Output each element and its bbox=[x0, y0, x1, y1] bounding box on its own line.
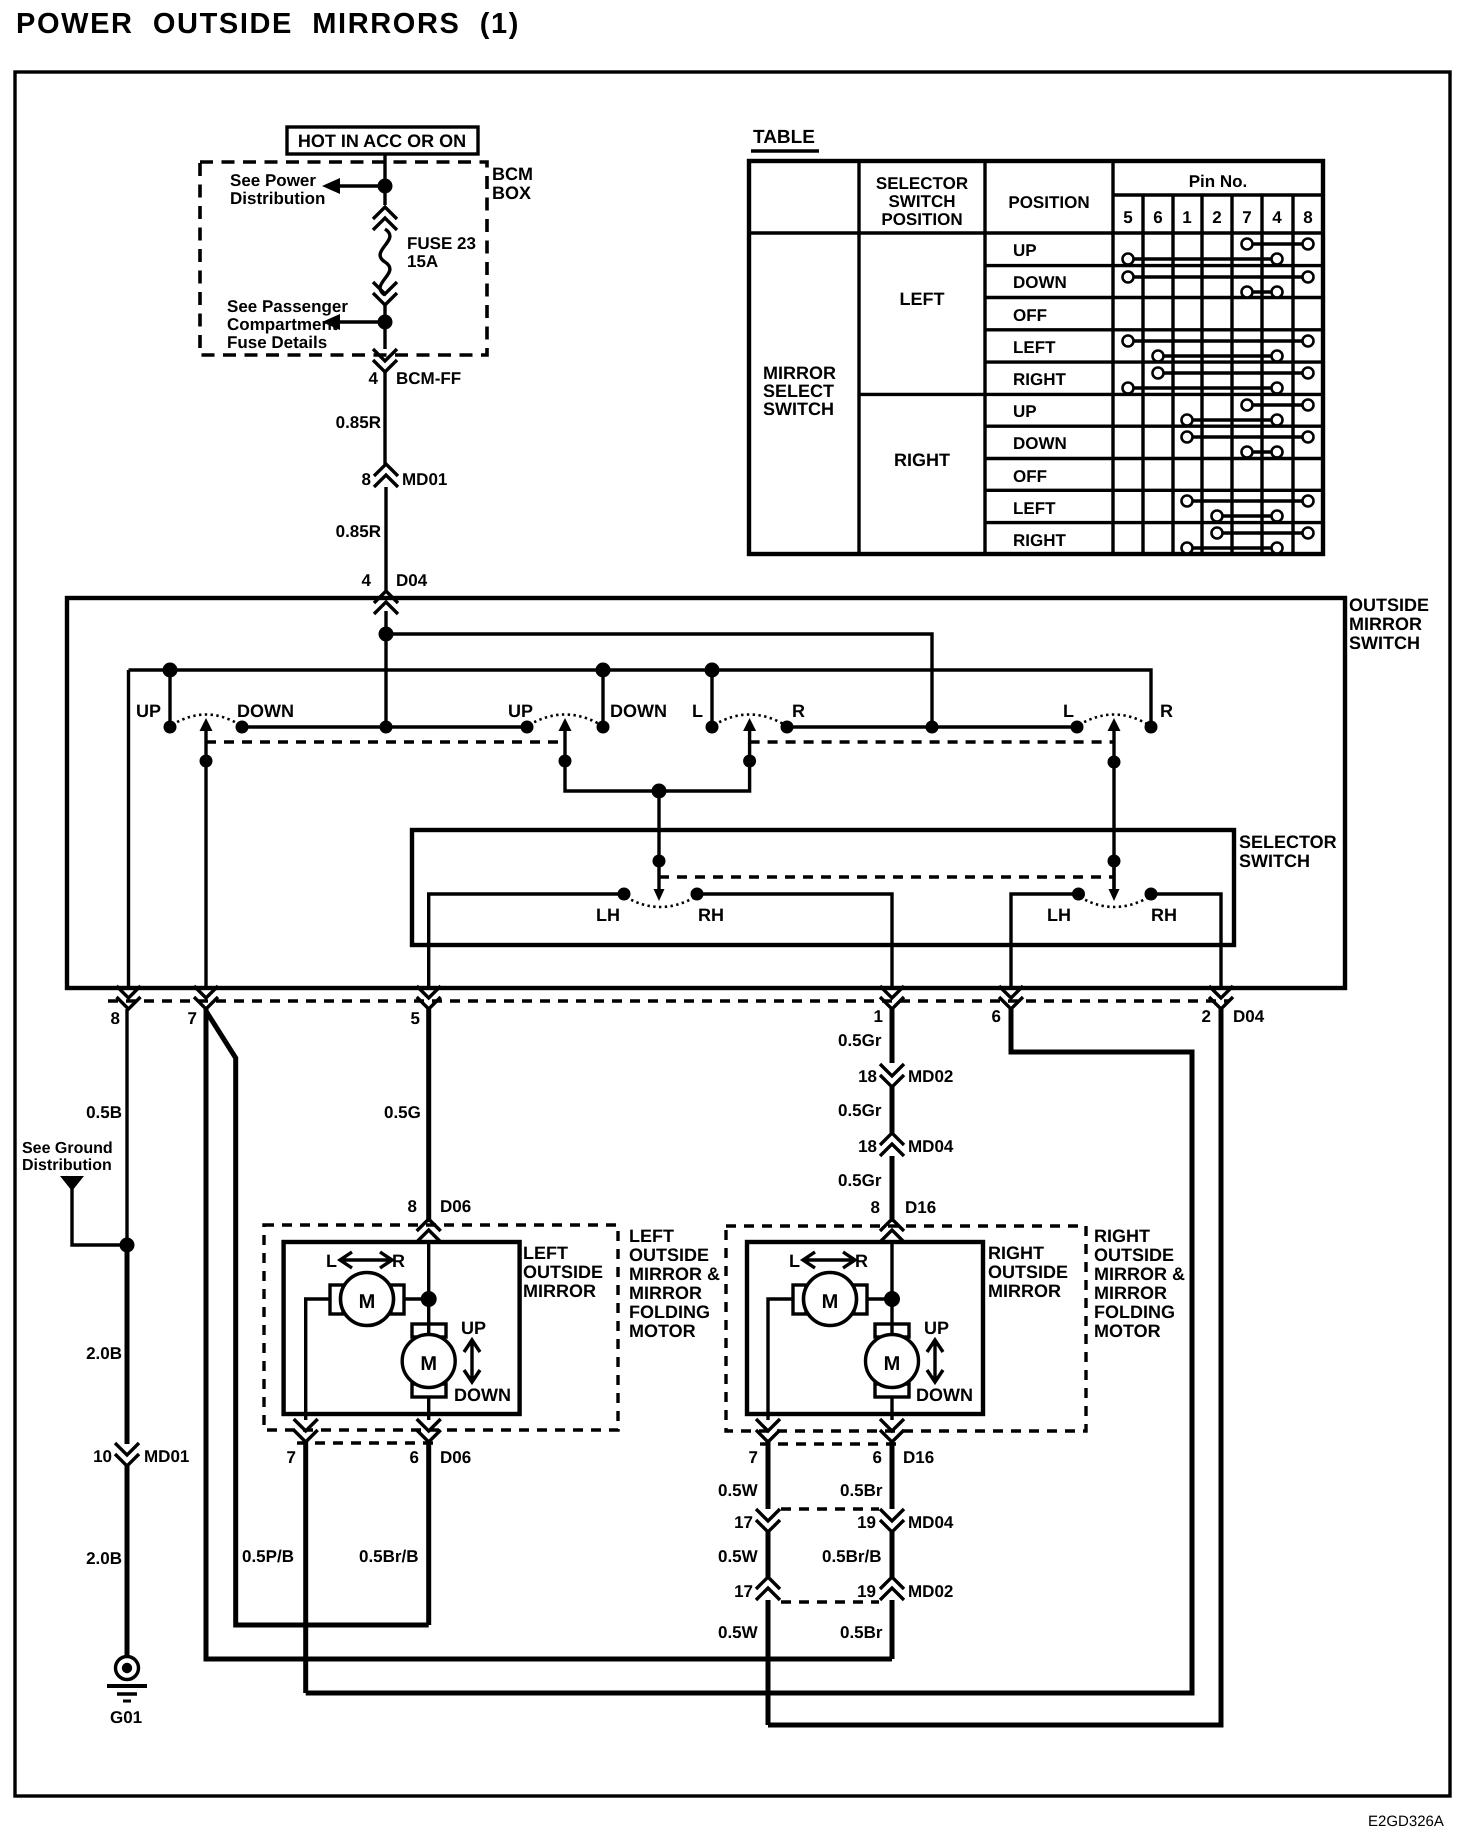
svg-text:0.5Br: 0.5Br bbox=[840, 1481, 883, 1500]
svg-text:MOTOR: MOTOR bbox=[1094, 1321, 1161, 1341]
wiper arc L2-R2 bbox=[1079, 715, 1149, 726]
node: power distribution junction bbox=[378, 179, 393, 194]
left mirror assembly bbox=[242, 1009, 720, 1693]
selector mechanical link dashed bbox=[659, 875, 1114, 878]
svg-text:8: 8 bbox=[362, 470, 371, 489]
node: ground branch junction bbox=[120, 1238, 135, 1253]
wire: LH1 to pin5 bbox=[429, 894, 624, 988]
svg-text:8: 8 bbox=[111, 1009, 120, 1028]
svg-text:SWITCH: SWITCH bbox=[1239, 851, 1310, 871]
node: passenger fuse junction bbox=[378, 315, 393, 330]
row4 LEFT contacts 6-4 bbox=[1153, 351, 1283, 362]
svg-text:MD04: MD04 bbox=[908, 1137, 954, 1156]
node on wiper2 stem bbox=[559, 755, 572, 768]
svg-text:6: 6 bbox=[410, 1448, 419, 1467]
arrow: see passenger compartment fuse details bbox=[338, 320, 385, 323]
svg-text:7: 7 bbox=[749, 1448, 758, 1467]
svg-text:L: L bbox=[1063, 701, 1074, 721]
svg-text:7: 7 bbox=[188, 1009, 197, 1028]
wiper arc L1-R1 bbox=[714, 715, 785, 726]
svg-text:19: 19 bbox=[857, 1582, 876, 1601]
wire 0.5Gr bbox=[890, 1156, 895, 1222]
wire: fuse to lower junction bbox=[383, 305, 386, 349]
svg-text:0.5P/B: 0.5P/B bbox=[242, 1547, 294, 1566]
svg-text:MIRROR: MIRROR bbox=[763, 363, 836, 383]
node: selector feed junction 1 bbox=[653, 855, 666, 868]
svg-text:6: 6 bbox=[873, 1448, 882, 1467]
svg-text:0.5Br/B: 0.5Br/B bbox=[359, 1547, 419, 1566]
svg-text:17: 17 bbox=[734, 1582, 753, 1601]
connector D04 dashed line bbox=[108, 999, 1229, 1002]
row6 UP contacts 7-8 bbox=[1242, 400, 1314, 411]
svg-text:RIGHT: RIGHT bbox=[1094, 1226, 1150, 1246]
svg-text:OFF: OFF bbox=[1013, 306, 1047, 325]
table column line col3 bbox=[1111, 161, 1114, 554]
connector pin 6 D16 bbox=[880, 1419, 904, 1442]
label HOT IN ACC OR ON bbox=[287, 127, 478, 154]
connector MD02 dashed link bbox=[781, 1600, 879, 1603]
wire: wiper4 stem down into selector bbox=[1112, 730, 1115, 889]
svg-text:0.5W: 0.5W bbox=[718, 1547, 759, 1566]
D04 connector row bbox=[108, 986, 1265, 1028]
svg-text:R: R bbox=[1160, 701, 1173, 721]
connector pin 2 D04 bbox=[1209, 986, 1233, 1009]
svg-text:HOT IN ACC OR ON: HOT IN ACC OR ON bbox=[298, 131, 466, 151]
connector 17 MD04 bbox=[756, 1509, 780, 1532]
contact nodes row bbox=[164, 721, 177, 734]
wire 0.85R bbox=[384, 487, 387, 591]
connector 18 MD02 bbox=[880, 1064, 904, 1087]
svg-text:LEFT: LEFT bbox=[629, 1226, 674, 1246]
connector 8 MD01 bbox=[374, 464, 398, 487]
svg-text:OFF: OFF bbox=[1013, 467, 1047, 486]
motor M folding (right) bbox=[793, 1285, 806, 1314]
svg-text:0.5B: 0.5B bbox=[86, 1103, 122, 1122]
node: bus tap L1 bbox=[705, 663, 720, 678]
right mirror assembly bbox=[718, 1009, 1185, 1725]
svg-text:MD04: MD04 bbox=[908, 1513, 954, 1532]
svg-text:RH: RH bbox=[1151, 905, 1177, 925]
svg-text:LEFT: LEFT bbox=[900, 289, 945, 309]
connector pin 7 D04 bbox=[194, 986, 218, 1009]
LEFT OUTSIDE MIRROR and FOLDING MOTOR dashed box bbox=[264, 1225, 618, 1430]
svg-text:0.85R: 0.85R bbox=[336, 413, 381, 432]
svg-text:D04: D04 bbox=[396, 571, 428, 590]
svg-text:UP: UP bbox=[924, 1318, 949, 1338]
motor M up-down (left) bbox=[412, 1324, 446, 1337]
pin column dividers bbox=[1141, 195, 1144, 554]
selector contacts LH2 RH2 bbox=[1072, 888, 1085, 901]
svg-text:DOWN: DOWN bbox=[916, 1385, 973, 1405]
wire: up-down motor to pin6 bbox=[427, 1397, 430, 1420]
svg-text:2: 2 bbox=[1212, 208, 1221, 227]
RIGHT OUTSIDE MIRROR inner box bbox=[747, 1242, 983, 1414]
svg-text:7: 7 bbox=[287, 1448, 296, 1467]
svg-text:1: 1 bbox=[874, 1007, 883, 1026]
wire: wiper2 stem bbox=[565, 730, 659, 791]
svg-text:UP: UP bbox=[461, 1318, 486, 1338]
svg-text:4: 4 bbox=[369, 369, 379, 388]
svg-text:2.0B: 2.0B bbox=[86, 1549, 122, 1568]
svg-text:FOLDING: FOLDING bbox=[629, 1302, 710, 1322]
row1 UP contacts 5-4 bbox=[1123, 254, 1283, 265]
svg-text:18: 18 bbox=[858, 1067, 877, 1086]
svg-text:6: 6 bbox=[1153, 208, 1162, 227]
svg-text:0.5Gr: 0.5Gr bbox=[838, 1171, 882, 1190]
svg-text:D06: D06 bbox=[440, 1197, 471, 1216]
arrow: ground distribution triangle bbox=[60, 1176, 84, 1191]
svg-text:POWER OUTSIDE MIRRORS (1): POWER OUTSIDE MIRRORS (1) bbox=[16, 8, 520, 40]
svg-text:6: 6 bbox=[992, 1007, 1001, 1026]
SELECTOR SWITCH box bbox=[412, 830, 1234, 945]
svg-text:BOX: BOX bbox=[492, 183, 531, 203]
wire 0.5Br/B right bbox=[890, 1532, 895, 1577]
svg-text:2: 2 bbox=[1202, 1007, 1211, 1026]
svg-text:Fuse Details: Fuse Details bbox=[227, 333, 327, 352]
row7 DOWN contacts 1-8 bbox=[1182, 432, 1314, 443]
wire 0.85R bbox=[383, 372, 386, 464]
svg-text:RIGHT: RIGHT bbox=[988, 1243, 1044, 1263]
svg-text:SWITCH: SWITCH bbox=[888, 192, 955, 211]
wire 0.5B pin8 down bbox=[125, 1009, 128, 1245]
svg-text:D16: D16 bbox=[903, 1448, 934, 1467]
connector pin 6 D04 bbox=[999, 986, 1023, 1009]
svg-text:0.5Gr: 0.5Gr bbox=[838, 1101, 882, 1120]
wire: lower bus across switch bbox=[129, 670, 1152, 727]
svg-text:4: 4 bbox=[1272, 208, 1282, 227]
svg-text:D04: D04 bbox=[1233, 1007, 1265, 1026]
mechanical link dashed left pair bbox=[206, 740, 565, 743]
svg-text:MIRROR: MIRROR bbox=[629, 1283, 702, 1303]
node on wiper1 stem bbox=[200, 755, 213, 768]
svg-text:See Passenger: See Passenger bbox=[227, 297, 348, 316]
selector arrow 2 head bbox=[1109, 889, 1120, 901]
svg-text:Pin No.: Pin No. bbox=[1189, 172, 1248, 191]
svg-text:10: 10 bbox=[93, 1447, 112, 1466]
svg-text:0.5W: 0.5W bbox=[718, 1623, 759, 1642]
row10 RIGHT contacts 2-8 bbox=[1212, 528, 1314, 539]
svg-text:L: L bbox=[692, 701, 703, 721]
svg-text:SWITCH: SWITCH bbox=[763, 399, 834, 419]
svg-text:DOWN: DOWN bbox=[1013, 434, 1067, 453]
arrow: see power distribution bbox=[338, 184, 385, 187]
svg-text:5: 5 bbox=[1123, 208, 1132, 227]
switch internals bbox=[129, 611, 1337, 988]
table column line col2 bbox=[983, 161, 986, 554]
svg-text:FOLDING: FOLDING bbox=[1094, 1302, 1175, 1322]
wire: LH2 to pin6 bbox=[1011, 894, 1079, 988]
svg-text:OUTSIDE: OUTSIDE bbox=[523, 1262, 603, 1282]
svg-text:Distribution: Distribution bbox=[22, 1157, 112, 1174]
wire: pin8 into box to junction bbox=[890, 1240, 893, 1336]
row4 LEFT contacts 5-8 bbox=[1123, 336, 1314, 347]
LEFT OUTSIDE MIRROR inner box bbox=[284, 1242, 520, 1414]
fuse FUSE 23 15A bbox=[380, 229, 390, 295]
wire: up-down motor to pin6 bbox=[890, 1397, 893, 1420]
motor M up-down (right) bbox=[875, 1324, 909, 1337]
svg-text:RIGHT: RIGHT bbox=[1013, 531, 1067, 550]
header row bottom line bbox=[749, 231, 1323, 234]
wire: pin8 leg bbox=[127, 670, 130, 988]
svg-text:SWITCH: SWITCH bbox=[1349, 633, 1420, 653]
node: motor junction left bbox=[421, 1291, 437, 1307]
row1 UP contacts 7-8 bbox=[1242, 239, 1314, 250]
svg-text:MD02: MD02 bbox=[908, 1067, 953, 1086]
svg-text:0.5Gr: 0.5Gr bbox=[838, 1031, 882, 1050]
wire 0.5Br/B left bbox=[426, 1442, 431, 1625]
svg-text:M: M bbox=[884, 1353, 901, 1375]
svg-text:Compartment: Compartment bbox=[227, 315, 338, 334]
selector arc LH1-RH1 bbox=[626, 897, 695, 907]
svg-text:MIRROR: MIRROR bbox=[988, 1281, 1061, 1301]
svg-text:D06: D06 bbox=[440, 1448, 471, 1467]
wiper arrow 4 bbox=[1108, 718, 1121, 731]
connector 19 MD02 bbox=[880, 1577, 904, 1600]
wire: folding motor to junction bbox=[867, 1297, 892, 1300]
svg-text:DOWN: DOWN bbox=[237, 701, 294, 721]
svg-text:MIRROR: MIRROR bbox=[1094, 1283, 1167, 1303]
row6 UP contacts 1-4 bbox=[1182, 415, 1283, 426]
wire: folding motor left tab to pin7 bbox=[768, 1299, 793, 1420]
svg-text:See Ground: See Ground bbox=[22, 1140, 113, 1157]
svg-text:BCM-FF: BCM-FF bbox=[396, 369, 461, 388]
wire: D04 pin2 riser to D16 pin7 route bbox=[768, 1009, 1221, 1725]
svg-text:OUTSIDE: OUTSIDE bbox=[1094, 1245, 1174, 1265]
svg-text:1: 1 bbox=[1182, 208, 1191, 227]
svg-text:DOWN: DOWN bbox=[610, 701, 667, 721]
wire 0.5W mid bbox=[766, 1532, 771, 1577]
connector chevron below fuse bbox=[373, 282, 397, 305]
svg-text:Distribution: Distribution bbox=[230, 189, 325, 208]
node on wiper3 stem bbox=[743, 755, 756, 768]
svg-text:FUSE 23: FUSE 23 bbox=[407, 234, 476, 253]
row10 RIGHT contacts 1-4 bbox=[1182, 543, 1283, 554]
connector pin 1 D04 bbox=[880, 986, 904, 1009]
svg-text:G01: G01 bbox=[110, 1708, 142, 1727]
connector chevron above fuse bbox=[373, 207, 397, 230]
wire: DOWN1 to UP2 contact strap bbox=[242, 725, 527, 728]
row9 LEFT contacts 1-8 bbox=[1182, 496, 1314, 507]
row2 DOWN contacts 7-4 bbox=[1242, 287, 1283, 298]
wire 2.0B lower bbox=[125, 1466, 130, 1656]
svg-text:LH: LH bbox=[596, 905, 620, 925]
wire 0.5Gr pin1 chain bbox=[890, 1009, 895, 1063]
node on wiper4 stem bbox=[1108, 756, 1121, 769]
svg-text:R: R bbox=[855, 1251, 868, 1271]
svg-text:8: 8 bbox=[871, 1198, 880, 1217]
svg-text:0.5W: 0.5W bbox=[718, 1481, 759, 1500]
svg-text:MIRROR: MIRROR bbox=[523, 1281, 596, 1301]
connector 18 MD04 bbox=[880, 1133, 904, 1156]
svg-text:OUTSIDE: OUTSIDE bbox=[629, 1245, 709, 1265]
TABLE (pin connection table) bbox=[749, 127, 1323, 554]
svg-text:SELECTOR: SELECTOR bbox=[876, 174, 968, 193]
svg-text:UP: UP bbox=[1013, 241, 1037, 260]
wire 0.5Gr bbox=[890, 1087, 895, 1133]
svg-text:RH: RH bbox=[698, 905, 724, 925]
svg-text:M: M bbox=[420, 1353, 437, 1375]
svg-text:0.5G: 0.5G bbox=[384, 1103, 421, 1122]
connector 19 MD04 bbox=[880, 1509, 904, 1532]
wiper arc UP2-DOWN2 bbox=[529, 715, 601, 726]
svg-text:DOWN: DOWN bbox=[454, 1385, 511, 1405]
bottom routing wires bbox=[206, 1009, 1221, 1725]
node: selector feed junction 2 bbox=[1108, 855, 1121, 868]
svg-text:MD01: MD01 bbox=[402, 470, 447, 489]
svg-text:2.0B: 2.0B bbox=[86, 1344, 122, 1363]
svg-text:UP: UP bbox=[136, 701, 161, 721]
svg-text:RIGHT: RIGHT bbox=[894, 450, 950, 470]
wire: D04 pin7 straight leg to D16 pin6 bbox=[206, 1009, 892, 1659]
mechanical link dashed right pair bbox=[750, 740, 1114, 743]
wire: RH2 to pin2 bbox=[1151, 894, 1221, 988]
svg-text:R: R bbox=[392, 1251, 405, 1271]
svg-text:MOTOR: MOTOR bbox=[629, 1321, 696, 1341]
row9 LEFT contacts 2-4 bbox=[1212, 511, 1283, 522]
selector arrow 1 down bbox=[654, 889, 665, 901]
svg-text:0.85R: 0.85R bbox=[336, 522, 381, 541]
svg-text:MD02: MD02 bbox=[908, 1582, 953, 1601]
svg-text:8: 8 bbox=[1303, 208, 1312, 227]
wire: ground distribution hook bbox=[72, 1189, 127, 1245]
svg-text:LEFT: LEFT bbox=[1013, 338, 1056, 357]
wire 0.5P/B bbox=[303, 1442, 308, 1693]
svg-text:MD01: MD01 bbox=[144, 1447, 189, 1466]
svg-text:OUTSIDE: OUTSIDE bbox=[988, 1262, 1068, 1282]
connector pin 7 D16 bbox=[756, 1419, 780, 1442]
selector arc LH2-RH2 bbox=[1080, 897, 1149, 907]
OUTSIDE MIRROR SWITCH box bbox=[67, 598, 1345, 988]
svg-text:15A: 15A bbox=[407, 252, 438, 271]
svg-text:E2GD326A: E2GD326A bbox=[1368, 1813, 1444, 1830]
svg-text:L: L bbox=[326, 1251, 337, 1271]
connector pin 4 BCM-FF bbox=[373, 349, 397, 372]
BCM BOX dashed enclosure bbox=[200, 162, 487, 355]
node: bus tap DOWN2 bbox=[596, 663, 611, 678]
wire: D04 pin6 jog to right riser bbox=[306, 1009, 1192, 1693]
row2 DOWN contacts 5-8 bbox=[1123, 272, 1314, 283]
wire 0.5W lower bbox=[766, 1600, 771, 1725]
svg-text:M: M bbox=[822, 1291, 839, 1313]
selector contacts LH1 RH1 bbox=[618, 888, 631, 901]
svg-text:18: 18 bbox=[858, 1137, 877, 1156]
node: bus junction on main feed bbox=[379, 627, 394, 642]
svg-text:DOWN: DOWN bbox=[1013, 273, 1067, 292]
wire: folding motor left tab to pin7 bbox=[306, 1299, 330, 1420]
motor M folding (left) bbox=[330, 1285, 343, 1314]
selector arrow 2 down bbox=[1112, 861, 1115, 889]
wire 0.5Br lower bbox=[890, 1600, 895, 1659]
node: bus tap UP1 bbox=[163, 663, 178, 678]
table frame bbox=[749, 161, 1323, 554]
wire: drop to DOWN2 contact bbox=[601, 670, 604, 727]
wire: R1 to L2 contact strap bbox=[787, 725, 1077, 728]
svg-text:19: 19 bbox=[857, 1513, 876, 1532]
wiper arrow 1 bbox=[200, 718, 213, 731]
svg-text:LH: LH bbox=[1047, 905, 1071, 925]
ground symbol G01 bbox=[116, 1657, 139, 1680]
svg-text:MIRROR: MIRROR bbox=[1349, 614, 1422, 634]
wire: folding motor to junction bbox=[404, 1297, 429, 1300]
svg-text:LEFT: LEFT bbox=[1013, 499, 1056, 518]
row5 RIGHT contacts 5-4 bbox=[1123, 383, 1283, 394]
connector pin 8 D04 bbox=[117, 986, 141, 1009]
row5 RIGHT contacts 6-8 bbox=[1153, 368, 1314, 379]
svg-text:17: 17 bbox=[734, 1513, 753, 1532]
wire 0.5Br upper bbox=[890, 1442, 895, 1509]
wire: wiper1 stem to pin7 bbox=[204, 730, 207, 988]
wire: RH1 to pin1 bbox=[697, 894, 892, 988]
connector 10 MD01 bbox=[115, 1443, 139, 1466]
wire: D04 pin7 diagonal branch to D06 pin6 bbox=[206, 1011, 429, 1625]
svg-text:MIRROR &: MIRROR & bbox=[1094, 1264, 1185, 1284]
svg-text:D16: D16 bbox=[905, 1198, 936, 1217]
wire 0.5G pin5 to D06 pin8 bbox=[426, 1009, 431, 1222]
connector pin 6 D06 bbox=[417, 1419, 441, 1442]
svg-text:MIRROR &: MIRROR & bbox=[629, 1264, 720, 1284]
wire: common down into selector bbox=[657, 791, 660, 889]
ground branch bbox=[22, 1009, 189, 1727]
wire: upper bus to right switch common bbox=[386, 634, 932, 727]
svg-text:L: L bbox=[789, 1251, 800, 1271]
svg-text:8: 8 bbox=[408, 1197, 417, 1216]
wire: pin4 entry down to bus bbox=[384, 611, 387, 727]
wiper arrow 2 bbox=[559, 718, 572, 731]
RIGHT OUTSIDE MIRROR and FOLDING MOTOR dashed box bbox=[726, 1226, 1086, 1431]
svg-text:0.5Br: 0.5Br bbox=[840, 1623, 883, 1642]
wire: pin8 into box to junction bbox=[427, 1240, 430, 1336]
connector 17 MD02 bbox=[756, 1577, 780, 1600]
node: motor junction right bbox=[884, 1291, 900, 1307]
svg-text:7: 7 bbox=[1242, 208, 1251, 227]
table column line col1 bbox=[857, 161, 860, 554]
svg-text:0.5Br/B: 0.5Br/B bbox=[822, 1547, 882, 1566]
svg-text:R: R bbox=[792, 701, 805, 721]
connector pin 7 D06 bbox=[294, 1419, 318, 1442]
svg-text:UP: UP bbox=[1013, 402, 1037, 421]
svg-text:RIGHT: RIGHT bbox=[1013, 370, 1067, 389]
connector D16 dashed line bbox=[760, 1442, 898, 1445]
svg-text:POSITION: POSITION bbox=[1008, 193, 1089, 212]
row lines bbox=[985, 264, 1323, 267]
svg-text:UP: UP bbox=[508, 701, 533, 721]
wire: wiper3 stem bbox=[659, 730, 750, 791]
wiper arrow 3 bbox=[743, 718, 756, 731]
wire 2.0B section bbox=[125, 1245, 130, 1444]
svg-text:OUTSIDE: OUTSIDE bbox=[1349, 595, 1429, 615]
wire: drop to UP1 contact bbox=[168, 670, 171, 727]
wire: drop to L1 contact bbox=[710, 670, 713, 727]
connector D06 dashed line bbox=[297, 1441, 436, 1444]
svg-text:M: M bbox=[359, 1291, 376, 1313]
wire 0.5W upper bbox=[766, 1442, 771, 1509]
row7 DOWN contacts 7-4 bbox=[1242, 447, 1283, 458]
svg-text:4: 4 bbox=[362, 571, 372, 590]
connector MD04 dashed link bbox=[781, 1507, 879, 1510]
svg-text:SELECT: SELECT bbox=[763, 381, 834, 401]
svg-text:See Power: See Power bbox=[230, 171, 316, 190]
node: wiper2/3 common junction bbox=[652, 784, 667, 799]
svg-text:LEFT: LEFT bbox=[523, 1243, 568, 1263]
wiper arc UP1-DOWN1 bbox=[172, 715, 240, 726]
svg-text:POSITION: POSITION bbox=[881, 210, 962, 229]
connector pin 5 D04 bbox=[417, 986, 441, 1009]
wire: HOT feed into BCM box bbox=[383, 154, 386, 205]
svg-text:5: 5 bbox=[411, 1009, 420, 1028]
svg-text:SELECTOR: SELECTOR bbox=[1239, 832, 1337, 852]
svg-text:BCM: BCM bbox=[492, 164, 533, 184]
svg-text:TABLE: TABLE bbox=[753, 127, 815, 148]
